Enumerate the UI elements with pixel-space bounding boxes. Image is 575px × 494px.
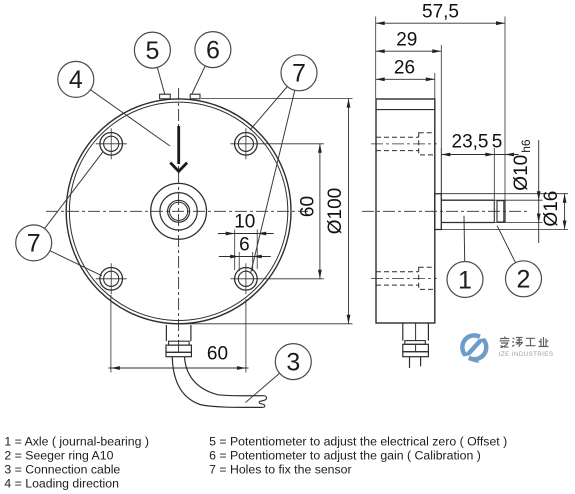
svg-text:23,5: 23,5 xyxy=(452,132,489,153)
svg-text:10: 10 xyxy=(234,212,255,233)
svg-text:60: 60 xyxy=(207,344,228,365)
svg-text:57,5: 57,5 xyxy=(422,2,459,23)
svg-text:Ø16: Ø16 xyxy=(541,191,562,227)
svg-text:4 = Loading direction: 4 = Loading direction xyxy=(4,477,119,491)
svg-text:5 = Potentiometer to adjust th: 5 = Potentiometer to adjust the electric… xyxy=(209,434,507,448)
svg-text:5: 5 xyxy=(145,37,159,65)
svg-text:5: 5 xyxy=(492,132,503,153)
svg-text:2: 2 xyxy=(517,266,531,294)
svg-text:IZE INDUSTRIES: IZE INDUSTRIES xyxy=(499,351,554,358)
svg-text:7: 7 xyxy=(292,60,306,88)
svg-text:6: 6 xyxy=(239,235,250,256)
svg-text:2 = Seeger ring A10: 2 = Seeger ring A10 xyxy=(4,449,113,463)
svg-text:7: 7 xyxy=(27,230,41,258)
svg-text:29: 29 xyxy=(396,30,417,51)
svg-text:6 = Potentiometer to adjust th: 6 = Potentiometer to adjust the gain ( C… xyxy=(209,448,481,462)
svg-text:1 = Axle ( journal-bearing ): 1 = Axle ( journal-bearing ) xyxy=(4,435,149,449)
svg-text:1: 1 xyxy=(458,266,472,294)
svg-text:60: 60 xyxy=(298,196,319,217)
svg-text:3: 3 xyxy=(286,348,300,376)
svg-text:3 = Connection cable: 3 = Connection cable xyxy=(4,463,120,477)
svg-text:6: 6 xyxy=(206,36,220,64)
svg-text:Ø100: Ø100 xyxy=(325,188,346,234)
svg-text:7 = Holes to fix the sensor: 7 = Holes to fix the sensor xyxy=(209,462,352,476)
svg-text:26: 26 xyxy=(394,58,415,79)
svg-text:4: 4 xyxy=(69,66,83,94)
